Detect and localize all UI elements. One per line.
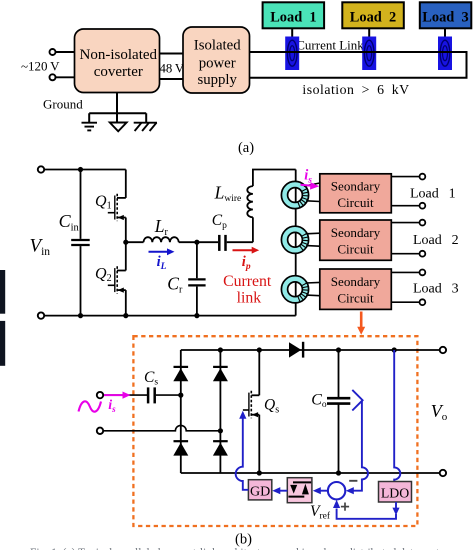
wire load3 outputs bbox=[391, 272, 419, 302]
wire link vertical through toroids bbox=[295, 170, 297, 316]
node bridge right mid bbox=[218, 428, 223, 433]
wire sense chevron bbox=[350, 390, 368, 491]
wire AC bottom bbox=[56, 76, 76, 78]
node load3 terminals bbox=[420, 270, 426, 276]
node Vo terminal bottom bbox=[440, 470, 446, 476]
svg-text:Load 2: Load 2 bbox=[413, 233, 459, 248]
arrow ip bbox=[233, 247, 260, 254]
ground chassis triangle bbox=[110, 123, 127, 132]
node junction Cin bottom bbox=[78, 313, 83, 318]
svg-text:Circuit: Circuit bbox=[337, 195, 374, 210]
node bottom rail Qs source bbox=[257, 470, 262, 475]
diode bridge top-right bbox=[213, 367, 228, 381]
node LDO tap top bbox=[392, 347, 397, 352]
node secondary input terminal bottom bbox=[97, 428, 103, 434]
svg-text:Isolated: Isolated bbox=[194, 38, 241, 54]
svg-text:Seondary: Seondary bbox=[331, 225, 381, 240]
node junction Cr bottom bbox=[194, 313, 199, 318]
wire bridge right leg bbox=[219, 350, 221, 473]
node AC input terminal bottom bbox=[50, 74, 56, 80]
node half-bridge midpoint bbox=[123, 240, 128, 245]
svg-text:GD: GD bbox=[250, 484, 270, 499]
capacitor Cs bbox=[148, 387, 181, 403]
svg-text:coverter: coverter bbox=[94, 64, 143, 80]
ground earth symbol bbox=[82, 123, 98, 131]
wire LDO to Vref bbox=[333, 500, 400, 519]
label plus bbox=[341, 503, 349, 511]
node secondary input terminal top bbox=[97, 392, 103, 398]
wire secondary input bottom with hop bbox=[103, 425, 220, 430]
transformer clamp T1 bbox=[285, 37, 299, 71]
block secondary circuit 2 bbox=[320, 220, 392, 260]
wire secondary input top bbox=[103, 394, 147, 396]
wire LDO input bbox=[394, 350, 400, 482]
svg-text:Current Link: Current Link bbox=[296, 38, 364, 53]
node Vo terminal top bbox=[440, 347, 446, 353]
capacitor Cin bbox=[71, 170, 90, 316]
wire midpoint to Lr bbox=[126, 241, 144, 243]
svg-text:Circuit: Circuit bbox=[337, 291, 374, 306]
transformer toroid core 2 bbox=[281, 226, 319, 253]
transformer clamp T2 bbox=[362, 37, 376, 71]
wire load3 drop bbox=[444, 28, 446, 38]
margin tab 2 bbox=[0, 321, 5, 366]
svg-text:LDO: LDO bbox=[381, 485, 409, 500]
node junction Q2 source bottom bbox=[123, 313, 128, 318]
node load2 terminals bbox=[420, 220, 426, 226]
wire 48V top bbox=[160, 53, 184, 55]
node top rail Qs drain bbox=[218, 347, 223, 352]
source sine symbol bbox=[79, 401, 102, 411]
svg-text:Load 1: Load 1 bbox=[410, 187, 456, 202]
svg-text:link: link bbox=[237, 290, 262, 307]
arrow iL bbox=[149, 248, 175, 255]
svg-text:Ground: Ground bbox=[43, 97, 83, 112]
wire b bottom rail bbox=[44, 315, 296, 317]
block secondary circuit 1 bbox=[320, 174, 392, 213]
wire 48V bottom bbox=[160, 78, 184, 80]
node Co bottom bbox=[336, 470, 341, 475]
arrow shunt to GD bbox=[272, 487, 287, 494]
wire output bottom rail bbox=[181, 472, 440, 474]
svg-text:Circuit: Circuit bbox=[337, 242, 374, 257]
wire b top rail bbox=[44, 169, 126, 171]
diode bridge bottom-right bbox=[213, 441, 228, 455]
capacitor Cr bbox=[188, 242, 205, 315]
wire load2 drop bbox=[368, 28, 370, 38]
transistor Q1 bbox=[108, 170, 126, 243]
inductor Lr bbox=[144, 237, 179, 242]
capacitor Cp bbox=[219, 235, 253, 251]
svg-text:Load 2: Load 2 bbox=[350, 9, 396, 25]
block secondary circuit 3 bbox=[320, 269, 392, 309]
block Load 3 bbox=[420, 2, 472, 28]
svg-text:48 V: 48 V bbox=[160, 62, 185, 76]
node junction Cin top bbox=[78, 167, 83, 172]
wire load1 drop bbox=[291, 28, 293, 38]
wire Lwire to link top bbox=[253, 170, 296, 187]
summing junction bbox=[328, 482, 345, 499]
svg-text:Seondary: Seondary bbox=[331, 274, 381, 289]
arrow orange detail pointer bbox=[357, 312, 365, 335]
svg-text:isolation > 6 kV: isolation > 6 kV bbox=[302, 82, 409, 97]
transformer toroid core 3 bbox=[281, 276, 319, 303]
node Vin terminal bottom bbox=[38, 312, 44, 318]
diode output series bbox=[289, 342, 303, 358]
svg-text:Seondary: Seondary bbox=[331, 179, 381, 194]
capacitor Co bbox=[327, 350, 350, 473]
arrow summing to shunt bbox=[313, 487, 328, 494]
svg-text:supply: supply bbox=[197, 72, 237, 88]
block Load 1 bbox=[263, 2, 325, 28]
wire current link loop bbox=[250, 52, 467, 78]
node junction Cr top bbox=[194, 240, 199, 245]
node AC input terminal top bbox=[50, 49, 56, 55]
transistor Qs bbox=[243, 350, 259, 473]
wire load1 outputs bbox=[391, 177, 419, 206]
label minus bbox=[349, 480, 357, 482]
block non-isolated converter bbox=[75, 29, 160, 93]
arrow is secondary bbox=[301, 182, 320, 189]
wire AC top bbox=[56, 51, 76, 53]
block isolated power supply bbox=[183, 27, 250, 93]
svg-text:(b): (b) bbox=[235, 532, 252, 548]
svg-text:Load 1: Load 1 bbox=[270, 9, 316, 25]
node Co top bbox=[336, 347, 341, 352]
svg-text:Non-isolated: Non-isolated bbox=[80, 47, 158, 63]
wire GD to gate bbox=[236, 419, 249, 490]
block LDO bbox=[379, 482, 412, 503]
inductor Lwire bbox=[247, 186, 253, 217]
svg-text:power: power bbox=[199, 56, 236, 72]
wire Cp up to Lwire bbox=[252, 217, 254, 242]
diode bridge bottom-left bbox=[173, 441, 188, 455]
margin tab 1 bbox=[0, 270, 5, 314]
arrow into summing minus bbox=[346, 487, 354, 494]
label Current link bbox=[223, 273, 272, 307]
wire Lr to node bbox=[179, 241, 218, 243]
wire output top rail bbox=[181, 349, 440, 351]
transistor Q2 bbox=[108, 242, 126, 315]
wire link over T1 bbox=[280, 51, 305, 53]
node Vin terminal top bbox=[38, 166, 44, 172]
wire bridge left leg bbox=[180, 350, 182, 473]
svg-text:~120 V: ~120 V bbox=[21, 59, 60, 74]
svg-text:Load 3: Load 3 bbox=[422, 9, 468, 25]
wire ground drop bbox=[89, 93, 146, 123]
wire link over T3 bbox=[433, 51, 457, 53]
block Load 2 bbox=[342, 2, 404, 28]
node bridge left mid bbox=[178, 393, 183, 398]
arrow is input bbox=[104, 392, 131, 399]
arrow gate drive up bbox=[239, 411, 246, 419]
transformer toroid core 1 bbox=[281, 181, 319, 208]
svg-text:Load 3: Load 3 bbox=[413, 282, 459, 297]
node load1 terminals bbox=[420, 174, 426, 180]
diode bridge top-left bbox=[173, 367, 188, 381]
transformer clamp T3 bbox=[438, 37, 452, 71]
ground frame symbol bbox=[134, 123, 157, 131]
svg-text:(a): (a) bbox=[238, 140, 254, 156]
wire load2 outputs bbox=[391, 223, 419, 254]
block shunt reference bbox=[287, 478, 312, 503]
wire link over T2 bbox=[357, 51, 381, 53]
dashed detail boundary bbox=[133, 336, 417, 526]
block GD gate driver bbox=[248, 480, 271, 500]
svg-text:Current: Current bbox=[223, 273, 272, 290]
